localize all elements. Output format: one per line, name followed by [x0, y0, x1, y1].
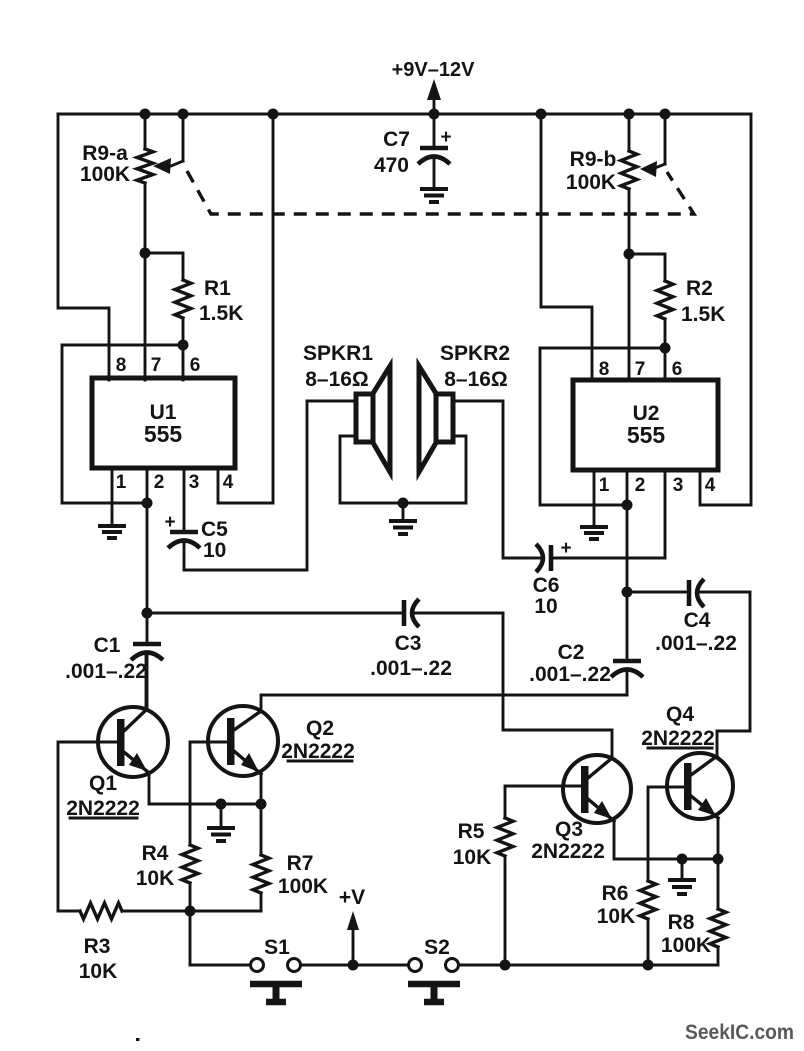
svg-text:C6: C6: [533, 574, 560, 597]
svg-text:8–16Ω: 8–16Ω: [444, 368, 508, 391]
svg-text:1.5K: 1.5K: [199, 302, 243, 325]
svg-text:Q3: Q3: [555, 818, 583, 841]
wire U1 pins 2-6 tie (left loop): [62, 345, 183, 503]
svg-text:+: +: [164, 512, 175, 533]
svg-text:R9-a: R9-a: [82, 142, 128, 165]
svg-text:R9-b: R9-b: [570, 148, 617, 171]
svg-text:470: 470: [374, 154, 409, 177]
resistor R7 100K: [253, 852, 328, 911]
svg-text:Q1: Q1: [89, 772, 117, 795]
wire Q4 base to R6: [648, 787, 684, 881]
svg-text:100K: 100K: [661, 934, 711, 957]
capacitor C4 .001-.22: [627, 579, 750, 655]
wire C5 to SPKR1: [184, 401, 356, 570]
capacitor C6 10 (U2 pin 3 coupling): [533, 470, 665, 618]
dashed gang coupling line between R9-a and R9-b: [187, 171, 694, 214]
svg-text:10K: 10K: [136, 867, 175, 890]
svg-text:S2: S2: [424, 936, 450, 959]
transistor Q3 2N2222: [531, 755, 631, 863]
wire Q3 emitter to common: [614, 821, 718, 859]
svg-text:100K: 100K: [278, 875, 328, 898]
wire Q3 base to R5: [505, 786, 581, 818]
svg-text:+V: +V: [339, 886, 365, 909]
switch S1: [250, 936, 302, 1002]
svg-text:Q4: Q4: [666, 703, 694, 726]
capacitor C3 .001-.22: [147, 599, 503, 680]
wire U2 pin 1: [593, 470, 596, 525]
transistor Q4 2N2222: [641, 703, 733, 819]
svg-text:.001–.22: .001–.22: [529, 663, 611, 686]
wire C6 to SPKR2: [453, 401, 534, 558]
svg-text:10K: 10K: [597, 905, 636, 928]
svg-text:6: 6: [672, 359, 683, 380]
speaker SPKR1 8-16ohm: [303, 342, 390, 472]
svg-text:R5: R5: [458, 820, 485, 843]
node top rail junction dots: [140, 109, 671, 120]
node speaker ground junction: [398, 498, 409, 509]
resistor R5 10K: [453, 818, 513, 965]
svg-text:100K: 100K: [566, 171, 616, 194]
wire top supply rail: [58, 113, 751, 116]
wire U2 pin 7: [628, 254, 631, 380]
svg-text:1: 1: [599, 475, 610, 496]
potentiometer R9-b 100K: [566, 114, 637, 254]
svg-text:C3: C3: [395, 632, 422, 655]
wire U2 pin 4 to V+ riser: [700, 114, 751, 505]
svg-text:R4: R4: [142, 842, 169, 865]
wire switch rail right: [459, 964, 718, 967]
svg-text:6: 6: [190, 355, 201, 376]
svg-text:+: +: [440, 127, 451, 148]
wire C4 to Q4 collector: [717, 592, 750, 756]
svg-text:4: 4: [705, 475, 716, 496]
svg-text:SPKR1: SPKR1: [303, 342, 373, 365]
resistor R2 1.5K: [629, 254, 725, 348]
node R9-a wiper to U1 pin 7 junction: [140, 248, 151, 259]
capacitor C7 470: [374, 114, 452, 187]
resistor R8 100K: [661, 909, 726, 965]
svg-text:1.5K: 1.5K: [681, 303, 725, 326]
node U2 pin 2 junction: [622, 500, 633, 511]
svg-text:R7: R7: [287, 852, 314, 875]
svg-text:10: 10: [534, 595, 557, 618]
ground below C7: [420, 189, 448, 202]
ground U1 pin 1: [98, 526, 126, 538]
wire Q2 emitter down: [260, 774, 263, 855]
svg-text:+9V–12V: +9V–12V: [392, 59, 476, 81]
svg-text:C4: C4: [684, 609, 711, 632]
resistor R3 10K: [58, 903, 261, 983]
wire Q1 base to left border: [58, 742, 116, 911]
wire U2 pin 6 stub: [664, 348, 667, 380]
node R3/R4 junction: [185, 906, 196, 917]
wire C3 to Q3 collector: [503, 613, 612, 758]
svg-text:8: 8: [116, 355, 127, 376]
svg-text:.001–.22: .001–.22: [655, 632, 737, 655]
node emitter ground junction: [216, 799, 227, 810]
node Q2 emitter junction: [256, 799, 267, 810]
svg-text:R2: R2: [686, 277, 713, 300]
node R6 rail junction: [643, 960, 654, 971]
svg-text:SeekIC.com: SeekIC.com: [685, 1021, 794, 1044]
wire U1 pin 2 down: [146, 468, 149, 613]
watermark SeekIC.com: [685, 1021, 794, 1044]
node R2 bottom / U2 pin 6 junction: [660, 343, 671, 354]
svg-text:C2: C2: [558, 641, 585, 664]
svg-text:.001–.22: .001–.22: [370, 657, 452, 680]
svg-text:8–16Ω: 8–16Ω: [305, 368, 369, 391]
switch S2: [408, 936, 460, 1002]
svg-text:2: 2: [154, 472, 165, 493]
svg-text:C5: C5: [201, 518, 228, 541]
svg-text:4: 4: [223, 472, 234, 493]
pin labels U2 bottom 1 2 3 4: [599, 475, 716, 496]
wire U2 pin 2 down: [626, 470, 629, 592]
svg-text:SPKR2: SPKR2: [440, 342, 510, 365]
node Q3 Q4 ground junction: [677, 854, 688, 865]
svg-text:1: 1: [116, 472, 127, 493]
pin labels U1 bottom 1 2 3 4: [116, 472, 234, 493]
pin labels U2 top 8 7 6: [599, 359, 683, 380]
svg-text:8: 8: [599, 359, 610, 380]
svg-text:C7: C7: [383, 128, 410, 151]
svg-text:3: 3: [673, 475, 684, 496]
resistor R4 10K: [136, 842, 198, 911]
speaker SPKR2 8-16ohm: [419, 342, 510, 472]
node U1 pin2/C1/C3 junction: [142, 608, 153, 619]
wire U1 pin 1: [111, 468, 114, 524]
node +V tap: [348, 960, 359, 971]
svg-text:10K: 10K: [79, 960, 118, 983]
transistor Q1 2N2222: [66, 707, 168, 820]
wire Q1 collector riser: [145, 656, 148, 710]
svg-text:7: 7: [151, 355, 162, 376]
wire Q4 emitter down: [717, 818, 720, 909]
wire Q1 emitter to common: [149, 773, 261, 804]
svg-text:R6: R6: [602, 882, 629, 905]
wire U1 pin 6 stub: [182, 345, 185, 380]
wire C2 to Q2 collector: [261, 695, 627, 712]
wiper arm of R9-b: [640, 114, 665, 177]
wire U2 pin 8 riser: [541, 114, 592, 380]
pin labels U1 top 8 7 6: [116, 355, 201, 376]
op-amp U1 555 timer: [92, 378, 235, 468]
power +V arrow: [339, 886, 365, 965]
svg-text:R3: R3: [84, 935, 111, 958]
node U1 pin 2 junction: [142, 498, 153, 509]
svg-text:.001–.22: .001–.22: [65, 660, 147, 683]
resistor R1 1.5K: [145, 253, 243, 345]
svg-text:555: 555: [627, 422, 666, 448]
power +9V-12V supply arrow: [392, 59, 476, 114]
svg-text:+: +: [560, 538, 571, 559]
wire speaker return loop: [340, 436, 466, 503]
svg-text:C1: C1: [94, 634, 121, 657]
svg-text:3: 3: [189, 472, 200, 493]
speck artifact: [136, 1038, 140, 1041]
svg-text:2: 2: [635, 475, 646, 496]
node Q4 emitter R8 junction: [713, 854, 724, 865]
svg-text:R1: R1: [204, 277, 231, 300]
svg-text:10K: 10K: [453, 846, 492, 869]
svg-text:555: 555: [144, 421, 183, 447]
node R1 bottom / U1 pin 6 junction: [178, 340, 189, 351]
resistor R6 10K: [597, 881, 656, 965]
ground Q3 Q4 emitters: [668, 859, 696, 894]
ground speakers common: [389, 503, 417, 534]
svg-text:R8: R8: [668, 911, 695, 934]
svg-text:Q2: Q2: [306, 717, 334, 740]
wire switch rail left: [190, 964, 250, 967]
node U2 pin2/C2/C4 junction: [622, 587, 633, 598]
svg-text:2N2222: 2N2222: [531, 840, 605, 863]
node R9-b wiper to U2 pin 7 junction: [624, 249, 635, 260]
svg-text:7: 7: [635, 359, 646, 380]
transistor Q2 2N2222: [208, 706, 355, 776]
wire U1 pin 4 to V+ riser: [218, 114, 273, 503]
ground Q1 Q2 emitters: [207, 804, 235, 841]
op-amp U2 555 timer: [573, 380, 718, 470]
capacitor C1 .001-.22: [65, 613, 163, 710]
capacitor C2 .001-.22: [529, 592, 643, 695]
svg-text:100K: 100K: [80, 163, 130, 186]
wire U2 pins 2-6 tie (left loop): [540, 348, 665, 505]
svg-text:10: 10: [203, 539, 226, 562]
ground U2 pin 1: [580, 527, 608, 539]
wire U1 pin 7: [144, 253, 147, 380]
node R5 rail junction: [500, 960, 511, 971]
wire left border from rail to U1 pin 8: [58, 114, 109, 380]
capacitor C5 10 (U1 pin 3 coupling): [164, 468, 228, 570]
svg-text:S1: S1: [264, 936, 290, 959]
potentiometer R9-a 100K: [80, 114, 153, 253]
wire Q2 base: [190, 742, 227, 845]
wire junction down to switch rail: [189, 911, 192, 965]
wire rail between S1 and S2: [301, 964, 408, 967]
wiper arm of R9-a: [153, 114, 183, 174]
